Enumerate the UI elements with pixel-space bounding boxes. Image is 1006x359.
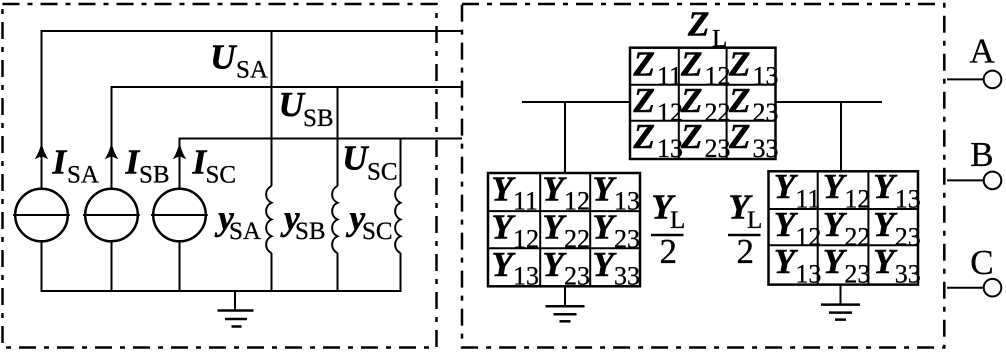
svg-text:2: 2 <box>737 232 755 271</box>
svg-text:13: 13 <box>795 260 821 289</box>
svg-text:13: 13 <box>753 62 779 91</box>
svg-text:L: L <box>747 207 762 234</box>
svg-text:22: 22 <box>705 98 731 127</box>
svg-text:L: L <box>712 26 727 53</box>
svg-text:33: 33 <box>753 134 779 163</box>
svg-text:13: 13 <box>895 184 921 213</box>
svg-text:C: C <box>970 243 993 282</box>
svg-text:Z: Z <box>728 45 750 84</box>
svg-text:Z: Z <box>728 117 750 156</box>
svg-text:33: 33 <box>895 260 921 289</box>
svg-text:22: 22 <box>844 223 870 252</box>
svg-text:Z: Z <box>680 81 702 120</box>
svg-text:33: 33 <box>614 262 640 291</box>
svg-text:Z: Z <box>687 5 709 44</box>
svg-text:11: 11 <box>657 62 682 91</box>
svg-text:11: 11 <box>513 186 538 215</box>
svg-text:22: 22 <box>564 225 590 254</box>
svg-text:12: 12 <box>795 223 821 252</box>
svg-text:SC: SC <box>206 162 237 189</box>
svg-text:13: 13 <box>513 262 539 291</box>
svg-text:Z: Z <box>680 117 702 156</box>
svg-text:SC: SC <box>367 159 398 186</box>
svg-text:SC: SC <box>362 218 393 245</box>
svg-text:L: L <box>670 207 685 234</box>
svg-text:SA: SA <box>67 162 99 189</box>
svg-text:U: U <box>210 38 237 77</box>
svg-text:12: 12 <box>657 98 683 127</box>
svg-text:23: 23 <box>564 262 590 291</box>
svg-text:Z: Z <box>633 81 655 120</box>
svg-text:12: 12 <box>705 62 731 91</box>
svg-text:Z: Z <box>633 117 655 156</box>
svg-text:U: U <box>342 139 369 178</box>
svg-text:SB: SB <box>303 105 334 132</box>
svg-text:12: 12 <box>564 186 590 215</box>
svg-text:23: 23 <box>895 223 921 252</box>
svg-text:U: U <box>279 85 306 124</box>
svg-text:23: 23 <box>844 260 870 289</box>
svg-text:SB: SB <box>139 162 170 189</box>
svg-text:SB: SB <box>295 218 326 245</box>
svg-text:I: I <box>52 143 68 182</box>
svg-text:A: A <box>970 32 996 71</box>
svg-text:13: 13 <box>614 186 640 215</box>
svg-text:23: 23 <box>614 225 640 254</box>
svg-text:12: 12 <box>844 184 870 213</box>
svg-text:13: 13 <box>657 134 683 163</box>
svg-text:23: 23 <box>705 134 731 163</box>
svg-text:SA: SA <box>229 218 261 245</box>
svg-text:B: B <box>970 135 993 174</box>
svg-text:11: 11 <box>795 184 820 213</box>
svg-text:Z: Z <box>633 45 655 84</box>
svg-text:SA: SA <box>236 57 268 84</box>
svg-text:Z: Z <box>680 45 702 84</box>
svg-text:2: 2 <box>660 232 678 271</box>
svg-text:12: 12 <box>513 225 539 254</box>
svg-text:Z: Z <box>728 81 750 120</box>
svg-text:23: 23 <box>753 98 779 127</box>
